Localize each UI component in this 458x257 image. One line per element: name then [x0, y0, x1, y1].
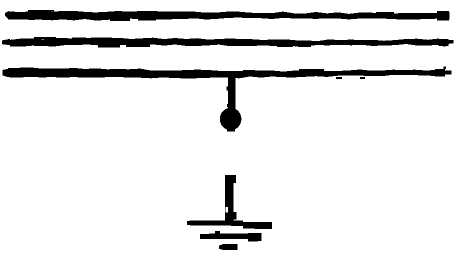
wire bus line 3 (bottom horizontal conductor, tapped) [3, 67, 452, 79]
wire vertical tap from line 3 down to junction [226, 74, 235, 112]
junction dot (solder blob at end of tap) [220, 108, 242, 132]
ground stub wire [225, 175, 233, 221]
ground (earth symbol: stub + three bars) [187, 175, 272, 250]
ground bar 2 (medium) [200, 231, 262, 241]
wire bus line 2 (middle horizontal conductor) [2, 37, 454, 47]
wire bus line 1 (top horizontal conductor) [5, 10, 450, 21]
ground bar 1 (long) [187, 220, 272, 229]
ground bar 3 (short) [219, 244, 238, 250]
